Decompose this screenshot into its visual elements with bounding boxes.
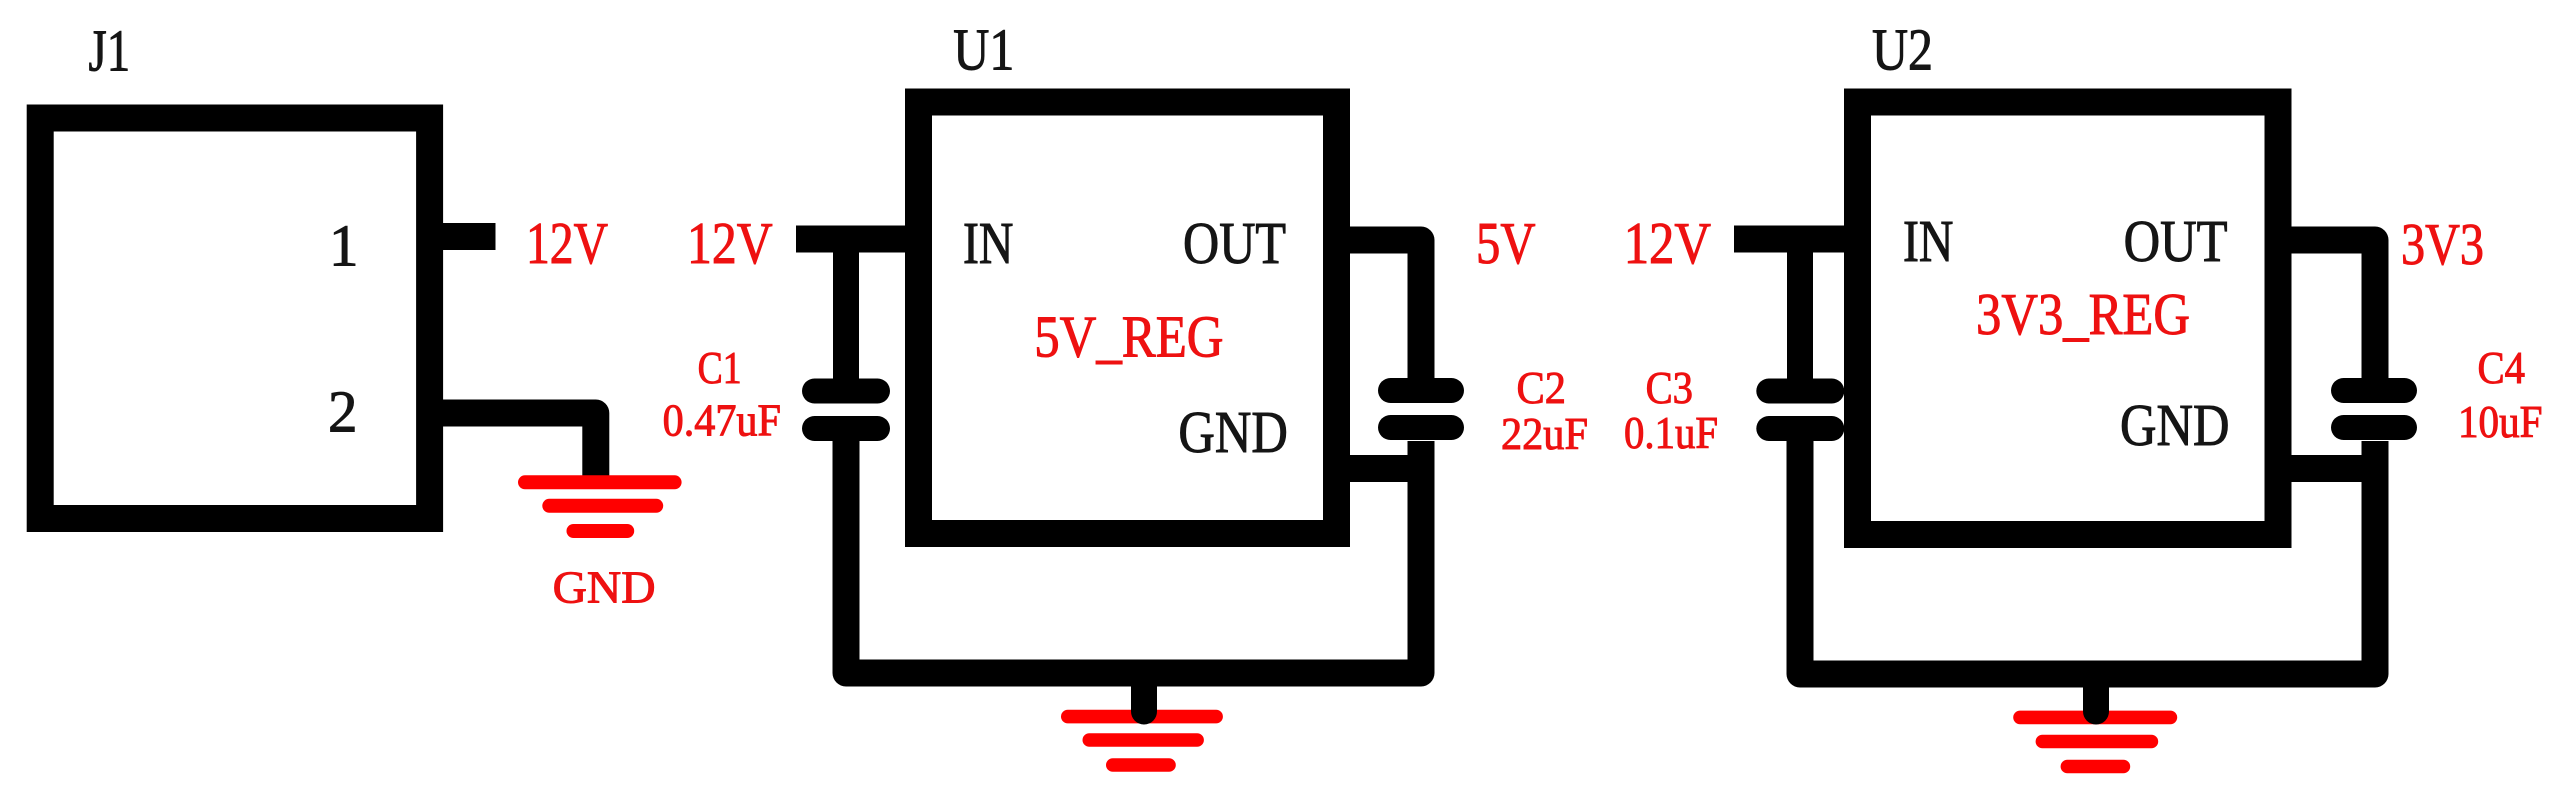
wire 12V to U1 IN bbox=[796, 226, 906, 253]
wire U2 OUT down bbox=[2292, 240, 2376, 380]
ground stub U1 bbox=[1131, 673, 1157, 712]
svg-text:12V: 12V bbox=[1624, 210, 1711, 276]
svg-text:5V: 5V bbox=[1476, 210, 1536, 276]
wire C1 branch upper bbox=[833, 239, 859, 380]
capacitor C3 bbox=[1769, 391, 1832, 429]
svg-text:C1: C1 bbox=[698, 342, 742, 393]
wire J1 pin 2 to ground bbox=[443, 413, 596, 478]
svg-text:GND: GND bbox=[553, 562, 656, 613]
svg-text:1: 1 bbox=[329, 213, 359, 279]
svg-text:U1: U1 bbox=[953, 17, 1014, 83]
svg-text:3V3: 3V3 bbox=[2401, 211, 2484, 277]
connector J1 bbox=[40, 118, 429, 519]
capacitor C4 bbox=[2344, 391, 2405, 428]
ground symbol at U2 bbox=[2020, 717, 2170, 766]
wire U1 OUT down bbox=[1350, 240, 1421, 380]
capacitor C2 bbox=[1391, 391, 1452, 428]
svg-text:C2: C2 bbox=[1517, 362, 1567, 413]
svg-text:C3: C3 bbox=[1646, 362, 1693, 413]
svg-text:22uF: 22uF bbox=[1501, 408, 1588, 459]
wire C1 to ground rail and rail to U1 right vertical bbox=[846, 441, 1421, 673]
svg-text:0.1uF: 0.1uF bbox=[1624, 407, 1718, 458]
svg-text:12V: 12V bbox=[526, 210, 608, 276]
wire U2 GND pin bbox=[2292, 455, 2389, 482]
svg-text:C4: C4 bbox=[2478, 342, 2526, 393]
svg-text:5V_REG: 5V_REG bbox=[1034, 304, 1223, 370]
svg-text:OUT: OUT bbox=[1183, 210, 1286, 276]
ground symbol at U1 bbox=[1068, 717, 1216, 765]
svg-text:10uF: 10uF bbox=[2458, 396, 2543, 447]
ground stub U2 bbox=[2083, 674, 2109, 712]
svg-text:U2: U2 bbox=[1872, 17, 1933, 83]
pin 1 stub wire bbox=[443, 223, 496, 250]
svg-text:IN: IN bbox=[1903, 208, 1953, 274]
svg-text:J1: J1 bbox=[89, 18, 131, 84]
wire U1 GND pin bbox=[1350, 455, 1435, 482]
svg-text:GND: GND bbox=[1178, 399, 1287, 465]
svg-text:GND: GND bbox=[2120, 392, 2230, 458]
wire C3 to ground rail and rail to U2 right vertical bbox=[1800, 441, 2375, 674]
regulator U1 bbox=[919, 102, 1337, 534]
ground symbol at J1 bbox=[525, 482, 675, 531]
svg-text:3V3_REG: 3V3_REG bbox=[1976, 281, 2190, 347]
svg-text:12V: 12V bbox=[687, 210, 773, 276]
svg-text:IN: IN bbox=[963, 210, 1013, 276]
wire 12V to U2 IN bbox=[1734, 226, 1845, 253]
regulator U2 bbox=[1858, 102, 2279, 535]
svg-text:0.47uF: 0.47uF bbox=[663, 395, 781, 446]
svg-text:2: 2 bbox=[328, 379, 358, 445]
wire below C2 bbox=[846, 441, 1421, 673]
wire below C4 bbox=[1800, 441, 2375, 674]
wire C3 branch upper bbox=[1787, 239, 1813, 380]
capacitor C1 bbox=[815, 391, 878, 429]
svg-text:OUT: OUT bbox=[2124, 208, 2228, 274]
